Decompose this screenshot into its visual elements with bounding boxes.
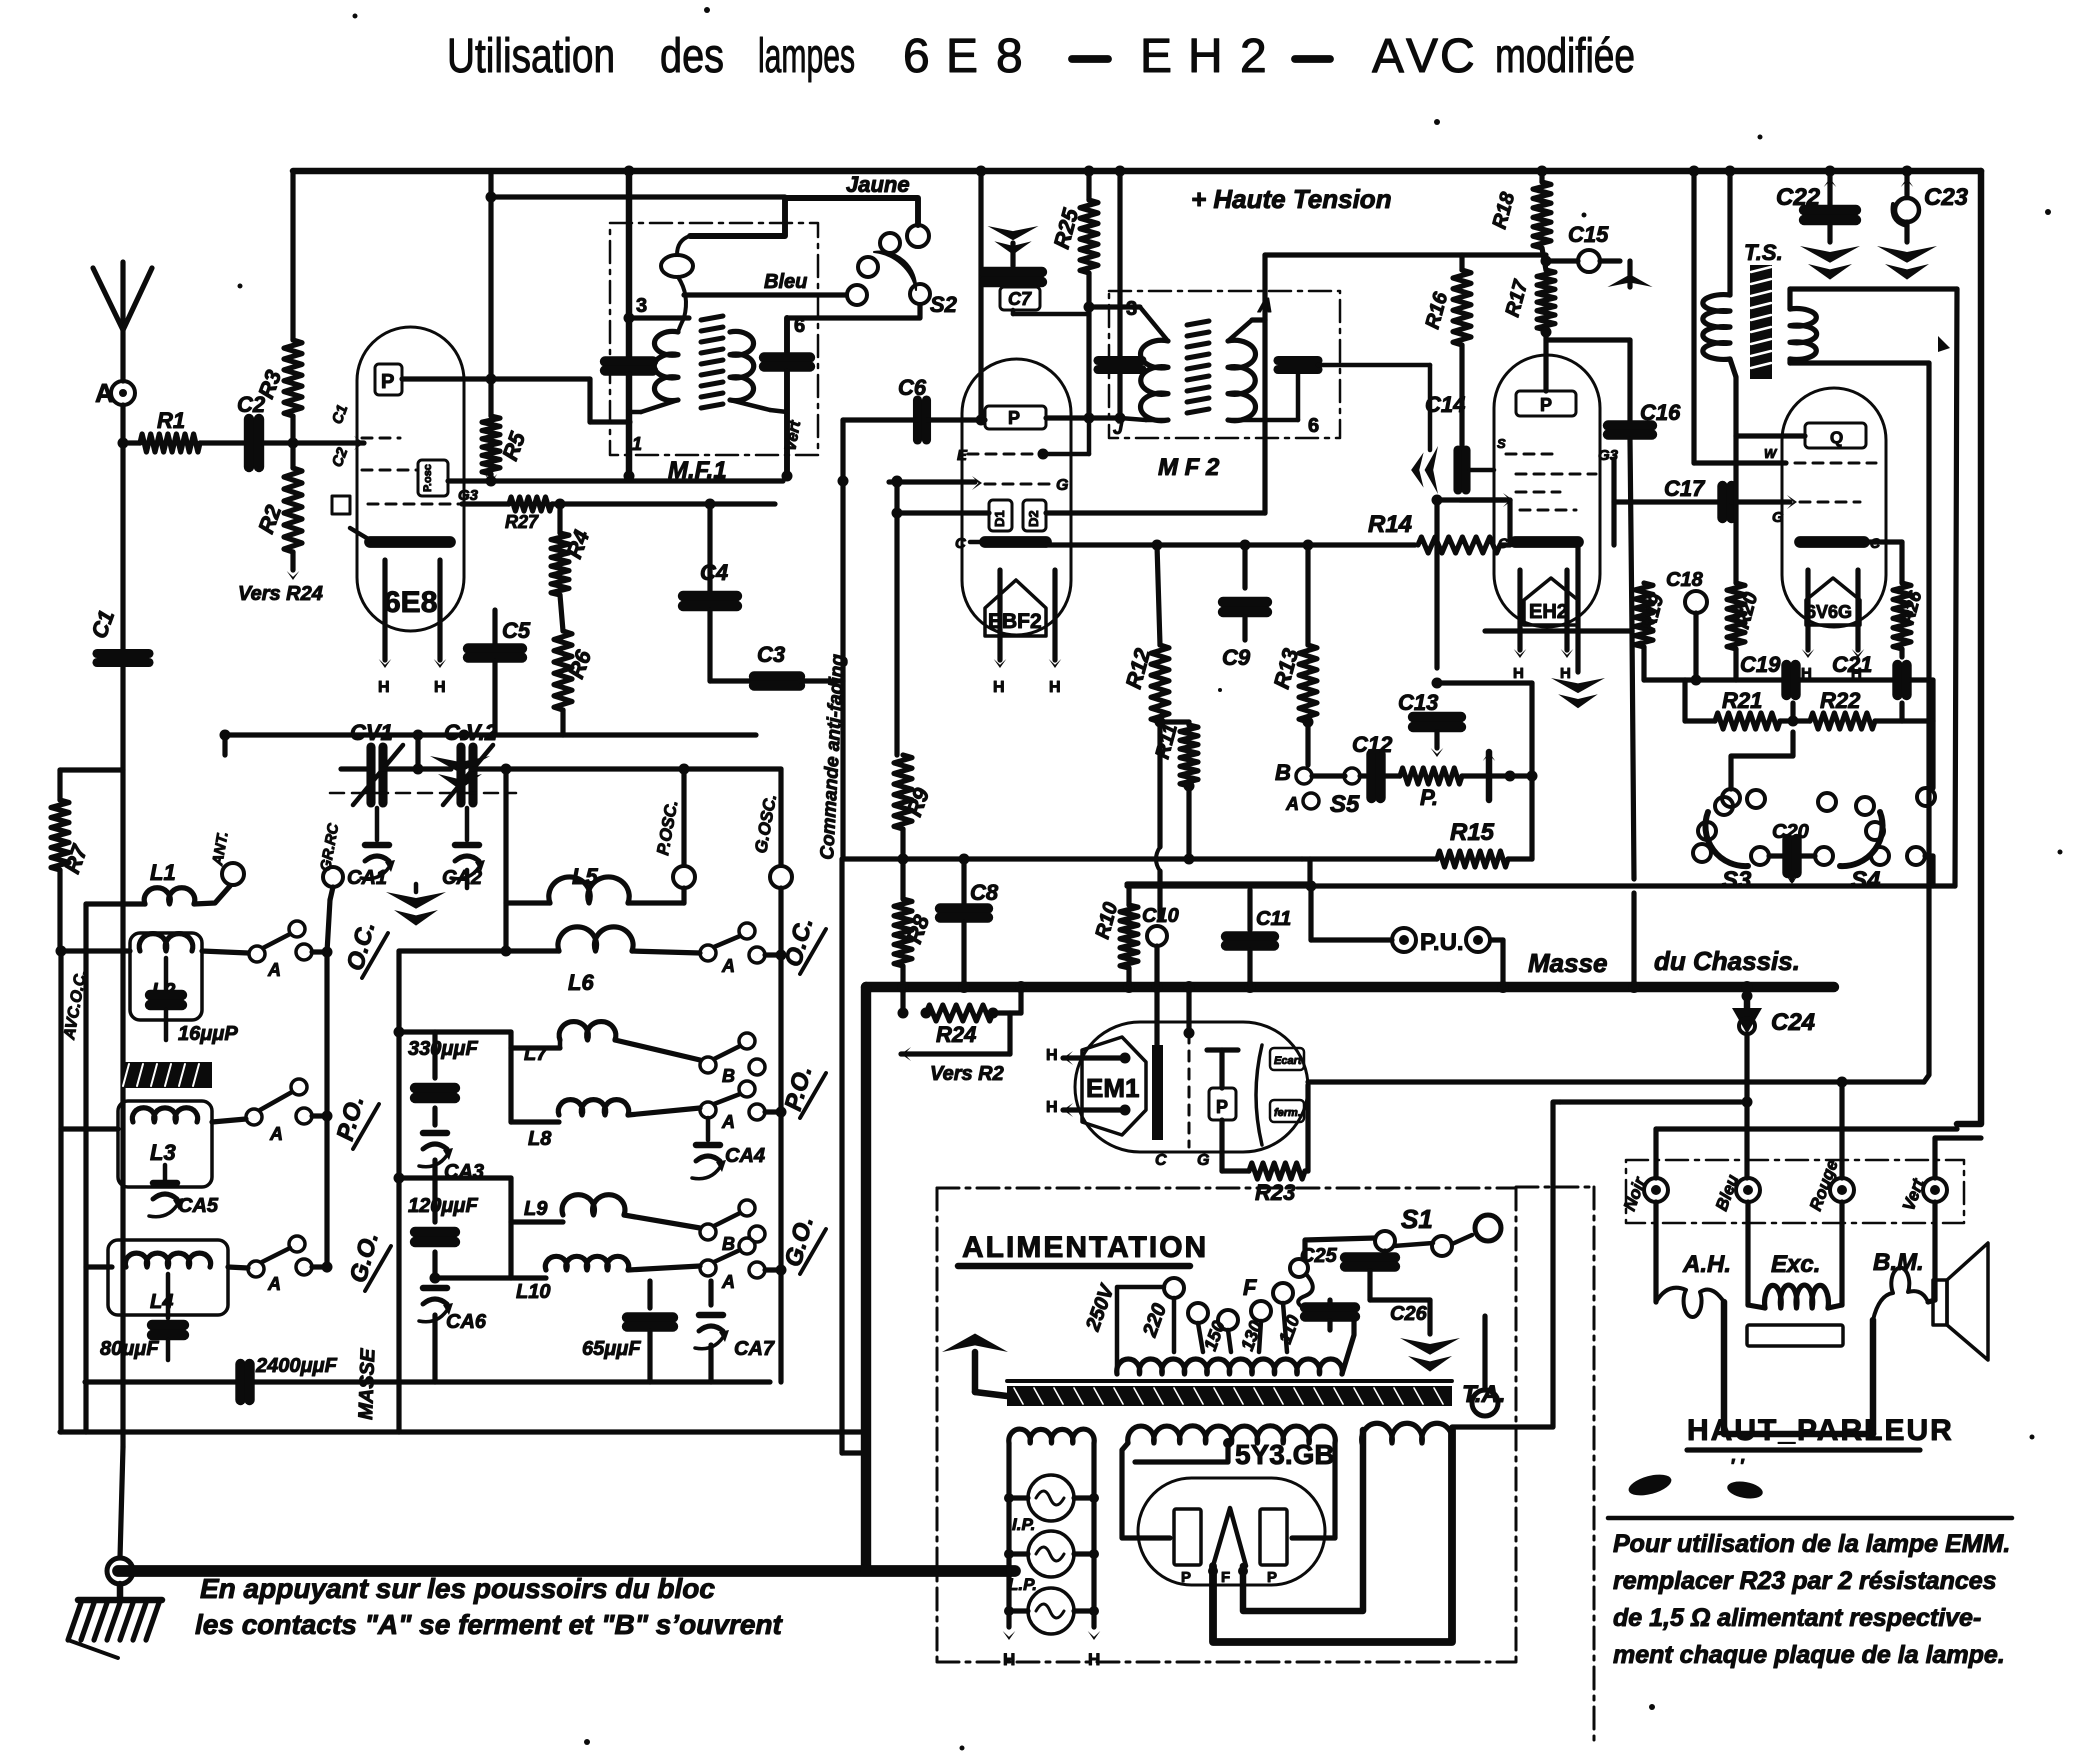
svg-text:R23: R23 [1255,1180,1295,1205]
svg-text:P: P [381,371,394,393]
svg-text:C3: C3 [757,642,785,667]
svg-text:H: H [1046,1099,1058,1116]
svg-text:A: A [267,960,281,980]
svg-text:A: A [721,1272,735,1292]
svg-text:C: C [1155,1152,1167,1169]
svg-text:A: A [95,378,114,408]
svg-text:ALIMENTATION: ALIMENTATION [962,1231,1208,1264]
svg-text:En appuyant sur les poussoirs: En appuyant sur les poussoirs du bloc [200,1573,715,1604]
svg-text:T.A.: T.A. [1462,1381,1506,1408]
svg-text:R14: R14 [1368,511,1412,538]
svg-text:EM1: EM1 [1086,1073,1139,1103]
svg-text:C8: C8 [970,880,999,905]
svg-text:MASSE: MASSE [355,1348,379,1421]
svg-text:ferm.: ferm. [1274,1107,1301,1119]
svg-text:Vers R24: Vers R24 [238,583,323,605]
svg-text:D1: D1 [992,510,1007,527]
svg-text:Pour utilisation de la lampe E: Pour utilisation de la lampe EMM. [1613,1530,2010,1558]
svg-text:C7: C7 [1008,289,1032,309]
svg-text:G: G [1056,477,1068,494]
svg-text:A.H.: A.H. [1682,1251,1731,1278]
svg-text:R24: R24 [936,1022,976,1047]
svg-text:H: H [1088,1650,1100,1669]
svg-text:J: J [1113,418,1124,438]
svg-text:L5: L5 [572,864,598,889]
svg-text:C11: C11 [1256,908,1291,930]
svg-text:P: P [1267,1569,1277,1586]
svg-text:C24: C24 [1771,1009,1815,1036]
svg-text:H: H [1046,1047,1058,1064]
svg-text:du Chassis.: du Chassis. [1654,946,1800,976]
svg-text:6: 6 [1308,415,1319,437]
svg-text:W: W [1764,446,1778,461]
svg-text:P: P [1008,408,1020,428]
svg-text:330μμF: 330μμF [408,1038,478,1060]
svg-text:E: E [957,447,968,464]
svg-text:E: E [1140,30,1172,83]
svg-text:L10: L10 [516,1281,550,1303]
svg-text:HAUT_PARLEUR: HAUT_PARLEUR [1687,1414,1954,1447]
svg-text:H: H [1003,1650,1015,1669]
svg-text:A: A [1372,30,1404,83]
svg-text:8: 8 [996,30,1023,83]
svg-text:6: 6 [903,30,930,83]
svg-text:C16: C16 [1640,400,1681,425]
svg-text:H: H [378,679,390,696]
svg-text:L6: L6 [568,970,594,995]
svg-text:C.V.2: C.V.2 [444,720,498,745]
svg-text:C25: C25 [1300,1245,1338,1267]
svg-text:6V6G: 6V6G [1806,602,1852,622]
svg-text:′ ′: ′ ′ [1730,1456,1744,1476]
svg-text:C20: C20 [1772,821,1809,843]
svg-text:CA4: CA4 [725,1145,765,1167]
svg-text:C18: C18 [1666,569,1704,591]
svg-text:C: C [1440,30,1475,83]
svg-text:S3: S3 [1722,867,1752,894]
svg-text:C19: C19 [1740,652,1781,677]
svg-text:C21: C21 [1832,652,1872,677]
svg-text:5Y3.GB: 5Y3.GB [1235,1439,1335,1470]
svg-text:A: A [267,1274,281,1294]
svg-text:S: S [1497,436,1506,451]
svg-text:C22: C22 [1776,184,1821,211]
svg-text:C13: C13 [1398,690,1438,715]
svg-text:C5: C5 [502,618,531,643]
svg-text:C23: C23 [1924,184,1969,211]
svg-text:A: A [269,1124,283,1144]
svg-text:L8: L8 [528,1128,552,1150]
svg-text:C4: C4 [700,560,728,585]
svg-text:R15: R15 [1450,819,1495,846]
svg-text:CA2: CA2 [442,867,482,889]
svg-text:Utilisation: Utilisation [447,30,615,83]
svg-text:de 1,5 Ω alimentant respective: de 1,5 Ω alimentant respective- [1613,1604,1981,1632]
svg-text:EBF2: EBF2 [988,610,1042,633]
svg-text:C9: C9 [1222,645,1251,670]
svg-text:H: H [1188,30,1223,83]
svg-text:C15: C15 [1568,222,1609,247]
svg-text:S2: S2 [930,292,958,317]
svg-text:P: P [1181,1569,1191,1586]
svg-text:R1: R1 [157,408,185,433]
svg-text:Exc.: Exc. [1771,1251,1820,1278]
svg-text:F: F [1221,1569,1230,1586]
svg-text:H: H [1049,679,1061,696]
svg-text:modifiée: modifiée [1495,30,1635,83]
svg-text:1: 1 [632,434,642,454]
svg-text:E: E [946,30,978,83]
svg-text:P.: P. [1420,785,1438,810]
svg-text:M F 2: M F 2 [1158,454,1220,481]
svg-text:I.P.: I.P. [1012,1515,1035,1534]
svg-text:T.S.: T.S. [1744,240,1783,265]
svg-text:6E8: 6E8 [384,586,437,619]
svg-text:2400μμF: 2400μμF [255,1355,338,1377]
svg-text:ment chaque plaque de la lampe: ment chaque plaque de la lampe. [1613,1641,2005,1669]
svg-text:G: G [1197,1152,1209,1169]
svg-text:80μμF: 80μμF [100,1338,159,1360]
svg-text:+ Haute Tension: + Haute Tension [1191,184,1392,214]
svg-text:C6: C6 [898,375,927,400]
svg-text:EH2: EH2 [1529,601,1568,623]
svg-text:L9: L9 [524,1198,548,1220]
svg-text:L3: L3 [150,1140,176,1165]
svg-text:L7: L7 [524,1043,548,1065]
svg-text:remplacer R23 par 2 résistance: remplacer R23 par 2 résistances [1613,1567,1997,1595]
svg-text:V: V [1406,30,1438,83]
svg-text:CA7: CA7 [734,1338,775,1360]
svg-text:A: A [721,1112,735,1132]
svg-text:Bleu: Bleu [764,271,807,293]
svg-text:P.U.: P.U. [1420,929,1464,956]
svg-text:Jaune: Jaune [846,172,910,197]
svg-text:B: B [1275,760,1291,785]
svg-text:S4: S4 [1851,867,1880,894]
svg-text:C10: C10 [1142,905,1179,927]
svg-text:P: P [1216,1097,1228,1117]
svg-text:16μμP: 16μμP [178,1023,238,1045]
svg-text:L1: L1 [150,860,176,885]
svg-text:C: C [955,535,967,552]
svg-text:CA1: CA1 [347,867,387,889]
svg-text:S5: S5 [1330,791,1360,818]
svg-text:CA5: CA5 [178,1195,219,1217]
svg-text:P: P [1540,395,1552,415]
svg-text:H: H [1513,665,1524,682]
svg-text:65μμF: 65μμF [582,1338,641,1360]
svg-text:S1: S1 [1401,1204,1433,1234]
svg-text:R21: R21 [1722,688,1762,713]
svg-text:F: F [1243,1275,1257,1300]
svg-text:L.P.: L.P. [1008,1575,1037,1594]
svg-text:M.F.1: M.F.1 [668,457,727,484]
svg-text:Ecart: Ecart [1274,1055,1303,1067]
svg-text:les contacts "A" se ferment et: les contacts "A" se ferment et "B" s’ouv… [195,1609,784,1640]
svg-text:A: A [1285,794,1299,814]
svg-text:2: 2 [1240,30,1267,83]
svg-text:Masse: Masse [1528,948,1608,978]
svg-text:C17: C17 [1664,476,1706,501]
svg-text:Q: Q [1830,428,1843,447]
svg-text:D2: D2 [1026,510,1041,527]
svg-text:120μμF: 120μμF [408,1195,478,1217]
svg-text:des: des [660,30,724,83]
svg-text:3: 3 [636,295,647,317]
svg-text:A: A [721,956,735,976]
svg-text:H: H [993,679,1005,696]
svg-text:CA6: CA6 [446,1311,487,1333]
svg-text:C12: C12 [1352,732,1393,757]
svg-text:R27: R27 [505,512,539,532]
svg-text:B.M.: B.M. [1873,1249,1924,1276]
svg-text:R22: R22 [1820,688,1861,713]
svg-text:H: H [1560,665,1571,682]
svg-text:P.osc: P.osc [422,464,434,492]
svg-text:B: B [722,1066,735,1086]
svg-text:Vers R2: Vers R2 [930,1063,1004,1085]
svg-text:H: H [434,679,446,696]
svg-text:C26: C26 [1390,1303,1428,1325]
svg-text:CV1: CV1 [350,720,393,745]
svg-text:3: 3 [1126,298,1137,320]
svg-text:lampes: lampes [758,30,855,83]
svg-text:6: 6 [794,315,805,337]
